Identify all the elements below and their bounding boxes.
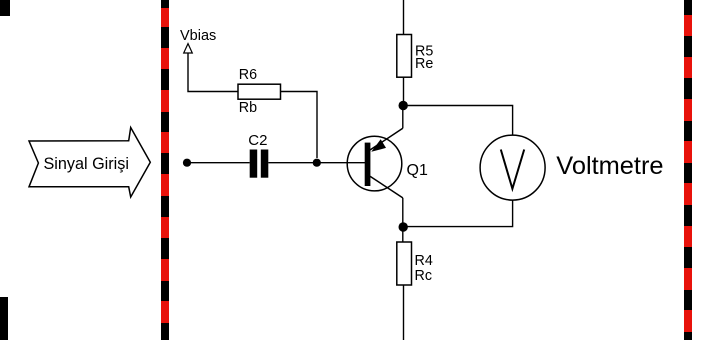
svg-text:C2: C2 (248, 132, 267, 149)
decorative frame left red bar (161, 0, 169, 340)
power Vbias (180, 28, 216, 53)
wire R4 to bottom edge (403, 285, 405, 340)
wire input node to C2 (187, 162, 250, 164)
resistor R6 (Rb) (238, 67, 281, 116)
svg-text:R6: R6 (239, 67, 257, 83)
node input (183, 159, 191, 167)
svg-text:Q1: Q1 (407, 162, 428, 179)
resistor R5 (Re) (397, 35, 434, 78)
svg-text:Re: Re (415, 56, 433, 72)
svg-text:Voltmetre: Voltmetre (556, 152, 663, 180)
wire top feed to R5 (403, 0, 405, 35)
svg-text:Rb: Rb (239, 100, 257, 116)
decorative frame right red bar (684, 0, 692, 340)
svg-text:R4: R4 (415, 253, 433, 269)
svg-text:Sinyal Girişi: Sinyal Girişi (44, 155, 129, 173)
decorative corner marks (0, 0, 10, 340)
transistor Q1 (347, 128, 428, 198)
wire Vbias to R6 (188, 53, 238, 92)
wire node E to voltmeter top (403, 106, 512, 136)
wire R6 to base node (281, 92, 318, 159)
svg-text:Rc: Rc (415, 268, 432, 284)
wire C2 to base node (268, 162, 317, 164)
node base junction (313, 159, 321, 167)
capacitor C2 (248, 132, 268, 178)
node C collector junction (399, 222, 408, 231)
resistor R4 (Rc) (397, 242, 433, 285)
wire Q1 emitter to node E (402, 101, 404, 128)
input arrow Sinyal Girişi (29, 128, 150, 198)
voltmeter M1 (480, 135, 545, 200)
node E emitter junction (399, 101, 408, 110)
wire R5 to node E (403, 77, 405, 101)
wire Q1 collector to R4 (402, 198, 404, 242)
wire voltmeter bottom to node C (403, 200, 512, 227)
svg-text:Vbias: Vbias (180, 28, 216, 44)
wire base node to Q1 (317, 162, 365, 164)
